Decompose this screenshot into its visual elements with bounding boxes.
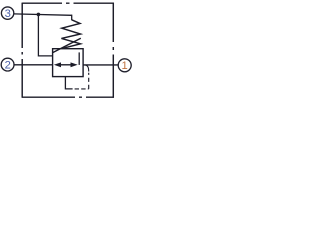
drain solid line to spring chamber (65, 77, 72, 89)
wire: port 1 rail (83, 64, 118, 66)
wire: port 2 rail (14, 64, 53, 66)
cartridge enclosure right edge (dash-dot) (112, 3, 114, 98)
wire: pilot branch down from junction (38, 14, 52, 56)
svg-text:2: 2 (5, 60, 11, 72)
svg-text:1: 1 (121, 60, 127, 72)
left arrowhead (54, 62, 61, 67)
internal pilot stub (78, 52, 80, 65)
cartridge enclosure top edge (dash-dot) (22, 2, 114, 4)
port 2 circle (1, 58, 14, 71)
right arrowhead (71, 62, 78, 67)
wire: spring lead down from rail (71, 15, 73, 21)
adjustment arrow across spring (52, 38, 81, 53)
valve body box (53, 49, 84, 77)
port 1 circle (118, 59, 131, 72)
cartridge enclosure bottom edge (dash-dot) (22, 96, 114, 98)
junction dot on pilot rail (37, 13, 41, 17)
flow path shaft inside box (58, 64, 74, 66)
port 3 circle (1, 7, 13, 19)
cartridge enclosure left edge (dash-dot) (21, 3, 23, 98)
spring (adjustable) (61, 20, 80, 49)
wire: port 3 pilot rail (14, 14, 72, 15)
drain dashed line left (75, 88, 89, 90)
drain dashed line down (88, 73, 90, 89)
drain branch curve from port 1 rail (85, 65, 89, 72)
svg-text:3: 3 (5, 8, 11, 20)
